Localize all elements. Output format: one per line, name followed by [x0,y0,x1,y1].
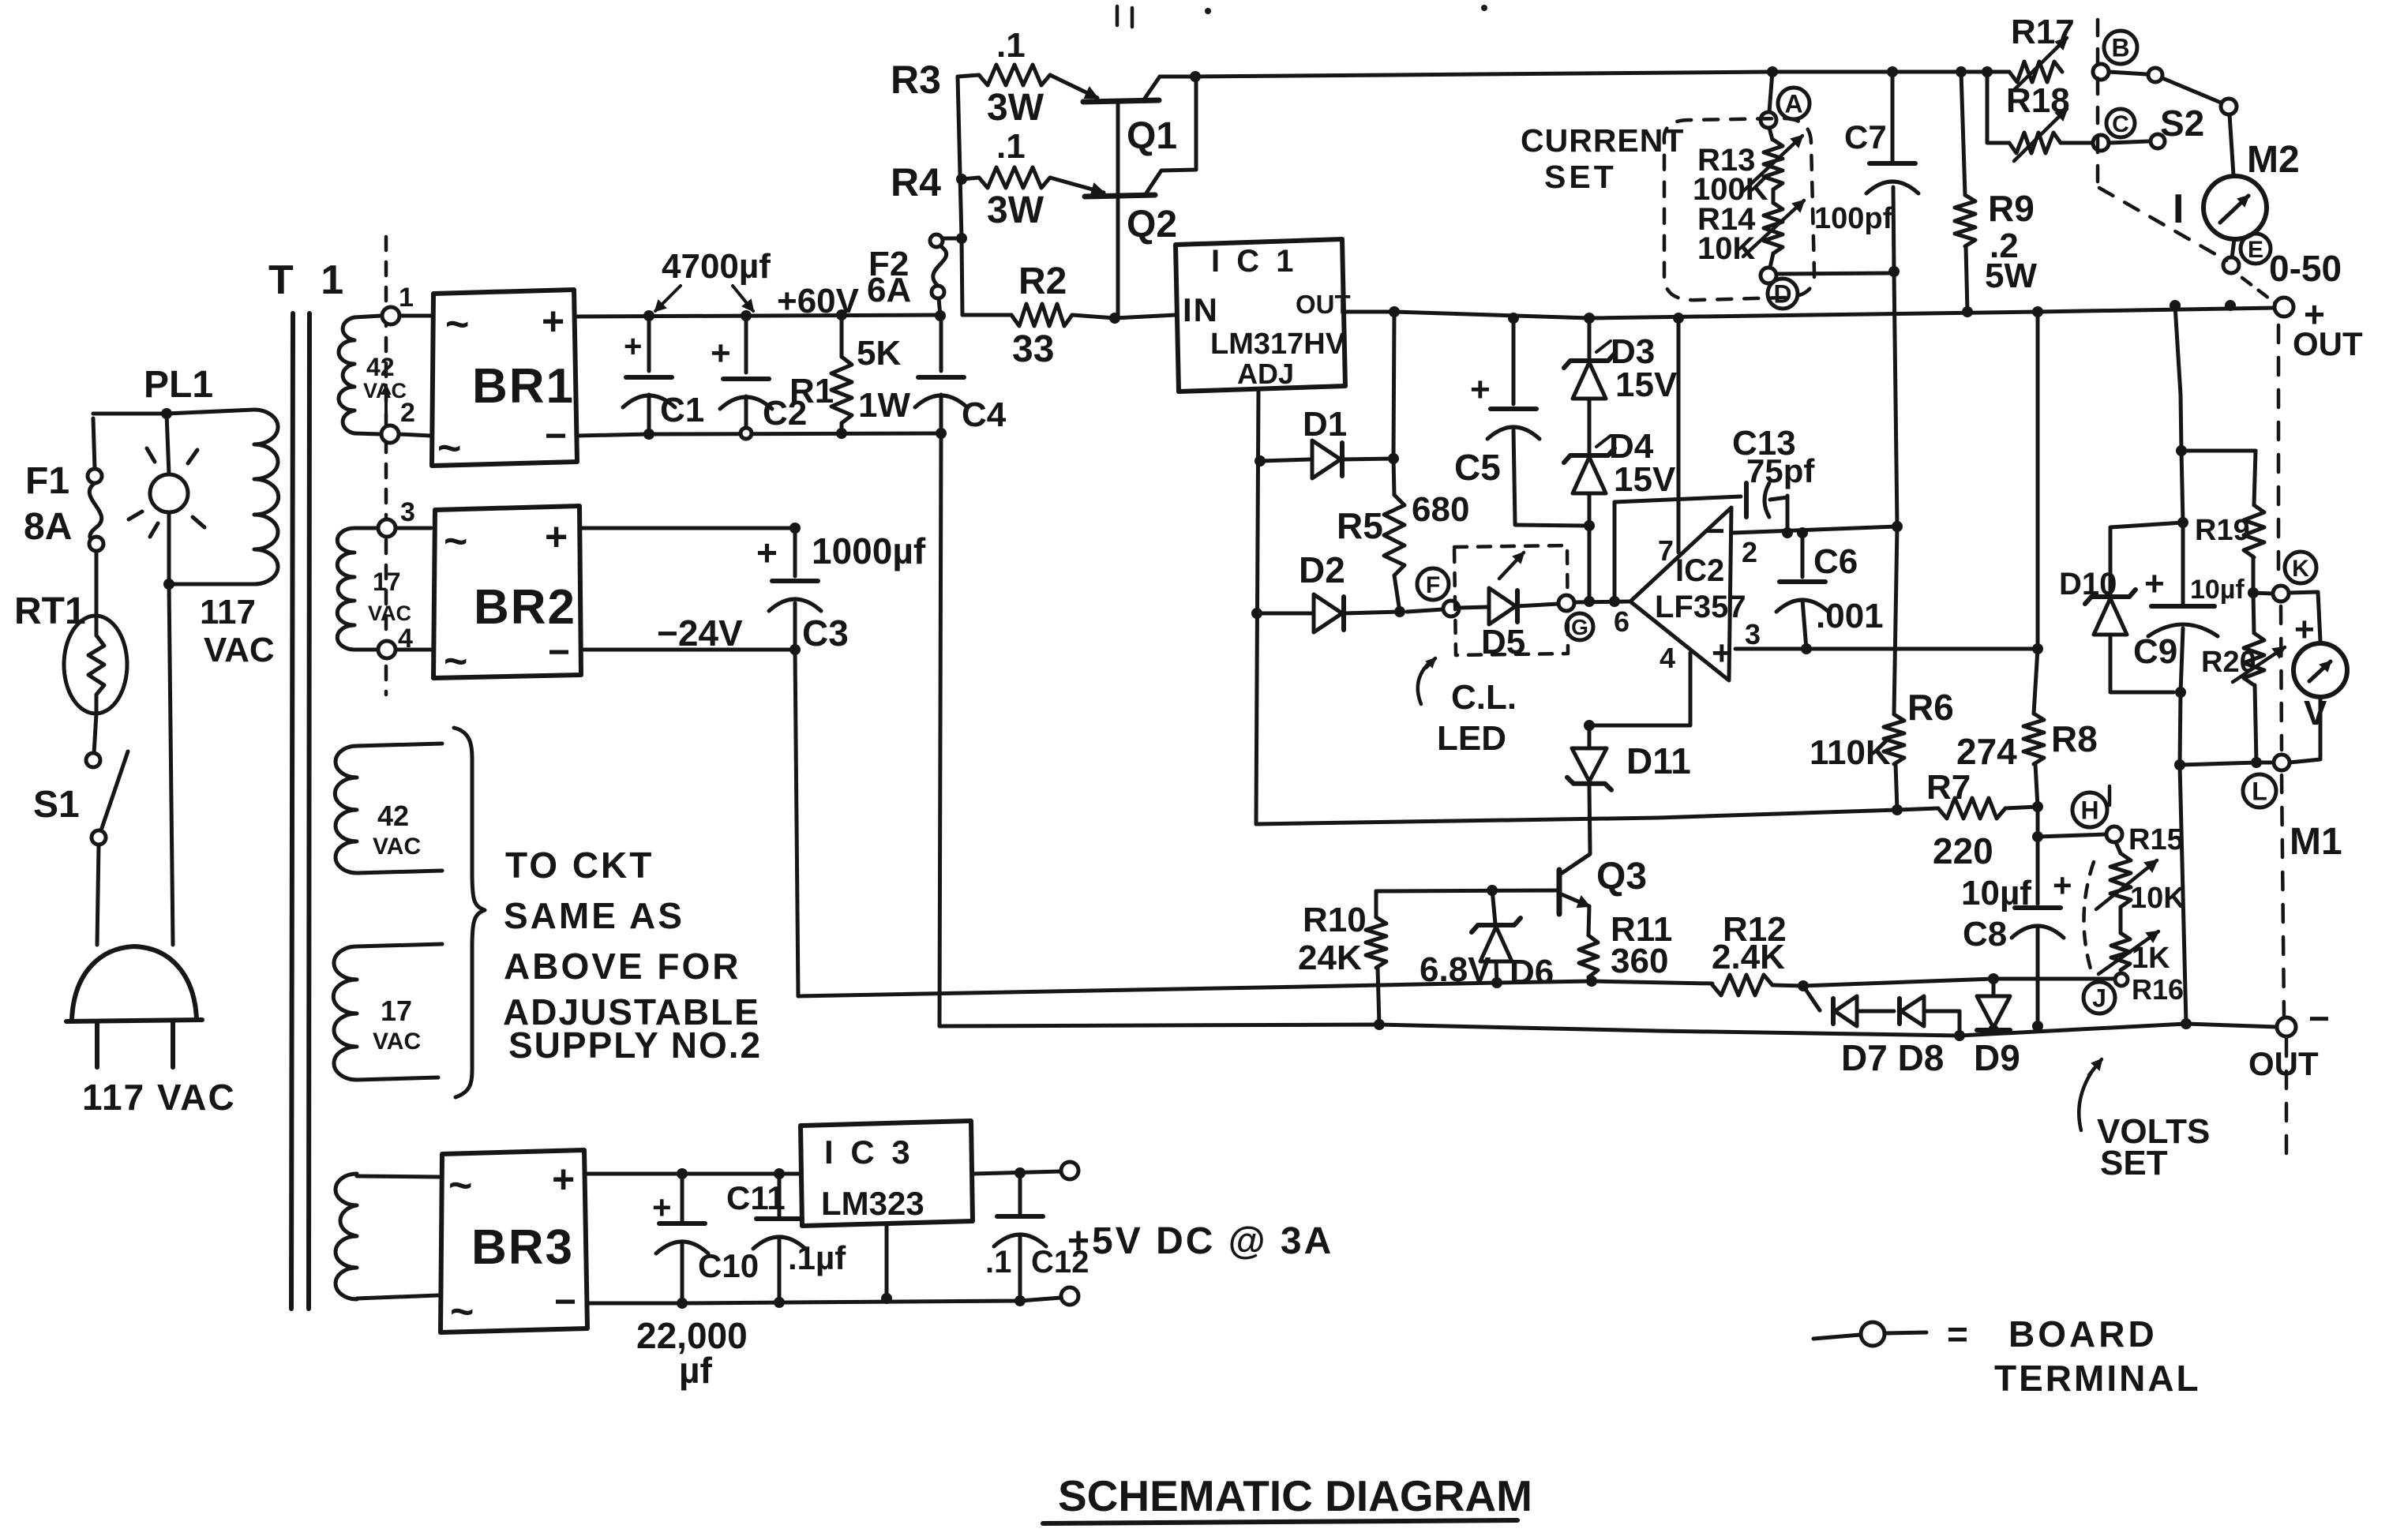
label C9 [2133,632,2177,671]
label 1K [2132,942,2170,975]
wire ADJ long [1256,810,1897,824]
svg-text:µf: µf [679,1350,713,1391]
label 100pf [1814,202,1893,235]
label .1uf C11 [788,1239,846,1276]
label C12 [1031,1245,1089,1280]
label LM323 [821,1185,924,1222]
label 17 VAC [368,568,411,625]
node R9 bottom [1962,306,1973,317]
svg-text:C1: C1 [660,391,704,429]
node R10 bottom [1374,1019,1385,1030]
node C7 bottom junction [1888,266,1900,277]
label D5 [1481,623,1525,661]
svg-text:D: D [1773,280,1791,309]
label 10uf C9 [2190,575,2245,605]
svg-text:LF357: LF357 [1655,590,1746,624]
wire bottom bus [939,1024,2277,1036]
capacitor C1 [623,316,675,434]
svg-text:S2: S2 [2160,103,2204,144]
label 100K [1693,172,1768,207]
svg-text:+: + [552,1157,575,1201]
opamp IC2 triangle [1630,508,1731,680]
label .1 R3 [996,26,1026,65]
svg-text:Q2: Q2 [1127,204,1177,245]
node R1 top [836,309,847,320]
node C circled [2106,109,2135,137]
svg-text:.1: .1 [996,127,1026,166]
wire lamp to plug [169,584,173,945]
resistor R5 [1384,459,1405,612]
wire C9 column [2177,451,2188,528]
bridge BR3 [441,1150,587,1335]
inductor T1 42VAC winding lower [335,744,442,873]
label C11 [726,1179,786,1216]
node C4 bottom [936,428,947,439]
svg-text:+: + [1470,370,1491,409]
label C1 [660,391,704,429]
node F2 top junction [956,233,967,244]
svg-text:VAC: VAC [373,834,421,860]
label 4 [398,624,413,654]
wire R3 to Q1 emitter [1050,75,1097,98]
transistor Q2 [1085,77,1196,318]
svg-text:2.4K: 2.4K [1712,938,1785,976]
svg-text:I C 3: I C 3 [824,1133,914,1171]
svg-text:R19: R19 [2195,514,2250,547]
label V [2304,694,2327,733]
svg-text:TERMINAL: TERMINAL [1994,1358,2201,1399]
capacitor C3 [756,528,821,650]
label CL LED arrow [1418,658,1435,704]
node PL1 top junction [161,408,172,419]
svg-text:+5V DC @ 3A: +5V DC @ 3A [1067,1220,1333,1262]
wire BR3 minus rail [587,1298,1061,1303]
node C3 bottom [789,644,801,655]
svg-text:+: + [756,532,778,573]
label R8 [2051,718,2098,759]
svg-text:D9: D9 [1974,1037,2020,1078]
svg-text:C.L.: C.L. [1451,678,1517,717]
svg-text:SCHEMATIC DIAGRAM: SCHEMATIC DIAGRAM [1058,1471,1532,1520]
svg-text:C9: C9 [2133,632,2177,671]
wire Q3 base [1376,890,1559,891]
label R19 [2195,514,2250,547]
svg-text:+: + [624,329,642,364]
label D3 [1596,332,1655,371]
node Q1Q2 collector junction [1190,71,1201,82]
wire pin7 supply [1677,318,1681,553]
terminal F [1443,601,1459,616]
terminal 1 [382,307,399,324]
label R18 [2006,81,2070,120]
potentiometer R13 [1742,128,1802,193]
svg-text:6.8V: 6.8V [1420,950,1491,989]
label 15V D3 [1615,365,1678,404]
label S1 [33,784,80,826]
node C5-D4 junction [1584,520,1595,531]
node C4/F2 [935,310,946,321]
wire C13 to output [1786,496,1790,533]
node pin7 top [1673,313,1684,324]
svg-text:3W: 3W [987,87,1044,129]
fuse F2 [930,234,962,316]
fuse F1 [88,418,103,551]
inductor T1 winding BR3 [336,1174,439,1299]
resistor R8 column [2036,312,2040,649]
svg-text:24K: 24K [1298,939,1362,977]
node C8 bottom [2032,1021,2043,1032]
node R19 bottom [2248,587,2259,598]
label 5W [1985,257,2037,295]
label pin6 [1614,605,1630,638]
svg-text:BR2: BR2 [474,580,576,635]
wire lamp column [167,414,169,584]
svg-text:−: − [554,1281,576,1323]
node R4 junction [956,174,967,185]
node C12 bottom [1014,1295,1026,1306]
label SET [1544,159,1617,195]
terminal OUT+ [2275,298,2293,317]
svg-text:D10: D10 [2059,567,2117,601]
svg-text:R1: R1 [789,372,834,410]
label pin3 [1745,618,1761,650]
node R6 bottom R7 left [1892,804,1903,815]
svg-text:~: ~ [444,519,467,564]
node R11 bottom [1586,976,1597,987]
node H circled [2072,792,2107,827]
svg-text:+: + [652,1189,672,1226]
node R7 right [2032,801,2043,812]
resistor R8 [2023,649,2044,807]
svg-text:110K: 110K [1810,733,1891,772]
node J circled [2083,982,2115,1014]
label uf [679,1350,713,1391]
brace to ckt no2 [454,728,485,1097]
terminal H [2106,826,2122,842]
svg-text:.1: .1 [985,1245,1011,1280]
wire ground rail BR1 [577,433,941,436]
svg-text:R17: R17 [2011,13,2075,51]
label R11 [1611,910,1672,949]
svg-text:+60V: +60V [777,282,860,320]
label .001 [1816,597,1884,635]
diode D10 [2085,590,2173,692]
svg-text:100pf: 100pf [1814,202,1893,235]
inductor T1 17VAC winding lower [333,944,442,1080]
node D3 top [1584,313,1595,324]
diode D8 [1900,996,1960,1035]
node B circled [2104,31,2137,64]
bridge BR1 [432,290,577,471]
svg-text:G: G [1571,615,1588,639]
svg-text:PL1: PL1 [144,364,213,406]
terminal A [1761,112,1776,128]
label 220 [1933,830,1993,871]
svg-text:117 VAC: 117 VAC [82,1077,236,1118]
svg-text:6: 6 [1614,605,1630,638]
svg-text:1000µf: 1000µf [812,530,926,571]
svg-text:7: 7 [1658,534,1674,567]
svg-text:2: 2 [1742,536,1757,568]
label R17 [2011,13,2075,51]
meter M2 [2203,176,2267,239]
label C7 [1844,118,1887,155]
svg-text:OUT: OUT [2248,1045,2319,1082]
label C5 [1454,447,1501,488]
svg-text:R16: R16 [2132,973,2184,1006]
wire R19 jog [2181,449,2256,453]
wire -24V long [798,981,1712,996]
node C9 bus [2181,1018,2192,1029]
wire OUT bus [1394,308,2276,318]
diode D10 loop [2110,523,2183,595]
label 274 [1956,731,2017,772]
svg-text:C4: C4 [962,395,1007,434]
label M1 [2290,821,2342,863]
svg-text:C: C [2112,111,2129,137]
label BOARD [2008,1313,2158,1355]
node D2 right R5 bottom [1394,606,1405,617]
svg-text:BR1: BR1 [472,359,575,414]
label pin7 [1658,534,1674,567]
node out bus dots [2170,300,2236,311]
capacitor C2 [711,316,772,429]
label D2 [1299,549,1345,590]
svg-text:IN: IN [1183,291,1219,328]
wire terminal3 to BR2 [396,526,431,530]
label + M1 [2294,610,2315,649]
label minus [1704,510,1725,551]
label RT1 [14,590,86,632]
label M2 [2247,139,2300,181]
label OUT+ [2293,325,2363,362]
svg-text:D7 D8: D7 D8 [1841,1037,1944,1078]
svg-text:SET: SET [2100,1144,2168,1182]
wire R8 to H [2032,807,2106,842]
label .2 [1990,227,2019,265]
svg-text:75pf: 75pf [1746,452,1815,489]
legend board terminal [1813,1322,1926,1346]
svg-text:OUT: OUT [1296,290,1351,319]
wire D to C7 column [1776,273,1892,274]
label R9 [1988,188,2035,229]
svg-text:TO CKT: TO CKT [505,845,654,886]
label R14 [1697,202,1756,237]
label R4 [891,160,941,204]
label 1 [399,283,414,313]
node pin4 junction [1584,720,1595,731]
label LF357 [1655,590,1746,624]
svg-text:15V: 15V [1615,365,1678,404]
wire OUT-to-D1 vertical [1393,312,1394,459]
wire RT1 to S1 [94,714,96,754]
dashed box D5 [1454,545,1568,655]
potentiometer R20 [2233,593,2285,763]
wire C3 down [795,650,798,996]
svg-text:1K: 1K [2132,942,2170,975]
svg-text:C7: C7 [1844,118,1887,155]
dashed panel vertical top [2096,20,2100,186]
svg-text:T 1: T 1 [268,257,351,303]
potentiometer R15 [2096,842,2157,909]
label R2 [1018,260,1067,302]
label +60V [777,282,860,320]
node pin3 R8 [2032,643,2043,654]
label OUT- [2248,1045,2319,1082]
svg-text:IC2: IC2 [1675,553,1724,588]
label R6 [1907,687,1954,728]
svg-text:C3: C3 [802,613,849,654]
svg-text:Q3: Q3 [1596,856,1647,897]
svg-text:4700µf: 4700µf [662,247,771,286]
svg-text:117: 117 [200,593,256,631]
capacitor C10 [652,1174,708,1302]
label 17 VAC lower [373,995,421,1055]
label .1 R4 [996,127,1026,166]
label C2 [763,394,807,433]
svg-text:BOARD: BOARD [2008,1313,2158,1355]
node C2 top [741,310,752,321]
wire +60V rail [577,315,940,317]
svg-text:C11: C11 [726,1179,786,1216]
svg-text:C10: C10 [698,1247,759,1284]
svg-text:SAME AS: SAME AS [504,895,684,936]
svg-text:S1: S1 [33,784,80,826]
svg-text:I C 1: I C 1 [1211,244,1297,279]
node R1 bottom [836,428,847,439]
resistor R11 [1579,935,1598,981]
svg-text:LM317HV: LM317HV [1210,328,1346,361]
node D circled [1768,279,1798,309]
svg-text:VAC: VAC [204,631,275,669]
node C3 top [789,523,801,534]
svg-text:680: 680 [1412,490,1469,529]
node C6 top [1797,527,1808,538]
wire ground drop [939,433,941,1026]
svg-text:D11: D11 [1626,740,1691,781]
svg-text:R7: R7 [1926,768,1971,807]
wire feedback top [1615,496,1741,502]
label C8 [1963,915,2007,954]
wire A stub [1769,72,1772,112]
node L circled [2243,774,2276,807]
label Q2 [1127,204,1177,245]
label 3W R4 [987,189,1044,231]
capacitor C4 [915,316,967,433]
svg-text:M2: M2 [2247,139,2300,181]
svg-text:BR3: BR3 [471,1220,574,1275]
label VOLTS SET [2079,1059,2210,1182]
wire IC3 out [973,1171,1061,1174]
svg-text:360: 360 [1611,942,1668,980]
label LM317HV [1210,328,1346,361]
inductor T1 17VAC winding 2 [337,528,378,650]
wire S1 to plug [97,845,99,945]
regulator IC3 LM323 box [801,1121,973,1226]
label R1 [789,372,834,410]
label 75pf [1746,452,1815,489]
svg-text:5W: 5W [1985,257,2037,295]
label +5V DC [1067,1220,1333,1262]
wire IC3 ground [885,1226,889,1298]
svg-text:R18: R18 [2006,81,2070,120]
svg-text:C5: C5 [1454,447,1501,488]
svg-text:R5: R5 [1337,505,1383,546]
label 6.8V [1420,950,1491,989]
svg-text:~: ~ [448,1163,472,1208]
wire L to R20 [2180,763,2274,765]
svg-text:+: + [545,515,568,559]
inductor T1 42VAC winding 1 [339,316,381,434]
terminal 4 [378,641,396,658]
svg-text:LM323: LM323 [821,1185,924,1222]
svg-text:E: E [2248,237,2263,263]
potentiometer R16 [2098,907,2158,974]
svg-text:+: + [2144,564,2165,603]
resistor R12 [1712,975,1803,995]
label D7 D8 [1841,1037,1944,1078]
node C11 top [774,1168,785,1179]
label 10K R15 [2130,882,2185,915]
node IC1 out junction [1389,306,1400,317]
terminal +5 return [1061,1287,1078,1305]
plug 117VAC [66,946,202,1067]
svg-text:F1: F1 [25,460,69,502]
terminal 3 [378,519,396,537]
wire pin4 return [1589,653,1690,725]
label S2 [2160,103,2204,144]
label R3 [891,58,941,102]
label - out [2308,998,2330,1039]
wire IC1 out [1345,310,1394,314]
svg-text:M1: M1 [2290,821,2342,863]
wire R14 to D [1770,253,1773,268]
wire D4 down [1588,493,1592,526]
svg-text:+: + [542,299,564,343]
node C1 top [643,310,654,321]
svg-text:1W: 1W [858,386,910,425]
wire terminal4 to BR2 [396,648,431,652]
node C12 top [1014,1167,1026,1178]
resistor R7 [1897,798,2038,819]
label 8A [24,506,72,548]
capacitor C9 [2144,523,2218,692]
wire G to opamp [1574,601,1630,602]
wire F1 to RT1 [95,551,99,616]
node D1 left [1255,455,1266,466]
svg-text:3: 3 [1745,618,1761,650]
label D1 [1303,405,1347,444]
diode D9 [1977,973,2010,1032]
label D10 [2059,567,2117,601]
switch S2 [2109,68,2237,148]
label C6 [1813,542,1858,581]
svg-text:C6: C6 [1813,542,1858,581]
node G circled [1566,613,1593,640]
terminal OUT- [2277,1017,2296,1036]
capacitor C6 [1776,533,1828,649]
label IC3 [824,1133,914,1171]
svg-text:R20: R20 [2201,646,2256,679]
node R19 jog [2176,445,2187,456]
terminal B [2093,64,2109,80]
svg-text:3: 3 [400,497,415,527]
label 6A [867,271,911,309]
label Q1 [1127,115,1177,157]
label pin4 [1660,642,1675,674]
node R6 top [1892,521,1903,532]
label R10 [1303,901,1367,939]
